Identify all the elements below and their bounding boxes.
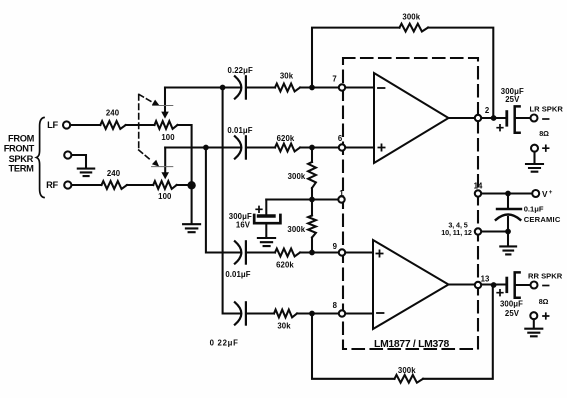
terminal RR SPKR (531, 282, 538, 289)
resistor 240 (RF) (102, 181, 127, 189)
plus sign RR terminal (543, 313, 549, 319)
wire C7 to RR terminal (516, 284, 530, 286)
wire pot1 wiper row to C1 (165, 86, 240, 88)
svg-text:LM1877 / LM378: LM1877 / LM378 (374, 339, 449, 350)
wire U1b output to pin 13 (449, 283, 506, 285)
wire C1 to R3 (246, 86, 275, 88)
minus sign LR SPKR (543, 118, 549, 120)
pin 1 (338, 196, 344, 202)
pin 9 (339, 249, 345, 255)
svg-text:240: 240 (106, 109, 120, 118)
minus sign RR SPKR (543, 285, 549, 287)
svg-text:300k: 300k (402, 13, 420, 22)
wire pot2 right end (177, 184, 192, 186)
terminal RR + (530, 312, 537, 328)
node row6 (309, 145, 315, 151)
node row9 (309, 250, 315, 256)
wire pin6 to op-amp (345, 146, 374, 148)
terminal LF (63, 121, 70, 128)
terminal LR + (531, 145, 538, 164)
resistor 300k (bottom feedback) (395, 375, 424, 383)
capacitor C1 0.22uF (235, 76, 246, 98)
svg-text:FRONT: FRONT (4, 143, 35, 153)
node B (RF signal split) (203, 145, 209, 151)
wire C3 to R5 (246, 251, 275, 253)
node output RR (491, 282, 497, 288)
svg-text:7: 7 (332, 75, 336, 84)
plus sign C7 (497, 290, 503, 296)
svg-text:100: 100 (158, 192, 172, 201)
wire top feedback left leg (312, 28, 400, 88)
svg-text:6: 6 (338, 134, 343, 143)
wire bottom feedback right leg (423, 285, 493, 379)
gang link dashed line (139, 95, 173, 167)
wire node to ground (191, 185, 193, 223)
svg-text:300k: 300k (398, 366, 416, 375)
svg-text:0.01μF: 0.01μF (225, 270, 250, 279)
plus sign C6 (497, 125, 503, 131)
svg-text:0.01μF: 0.01μF (227, 126, 252, 135)
wire C2 to R4 (246, 146, 275, 148)
resistor 30k (bottom) (274, 310, 297, 318)
wire pot1 right end down to ground node (178, 125, 192, 181)
IC dashed package outline (343, 58, 478, 349)
svg-text:620k: 620k (277, 134, 295, 143)
wire center terminal to ground (72, 155, 86, 168)
svg-text:SPKR: SPKR (9, 154, 34, 164)
node A (LF signal split) (220, 85, 226, 91)
resistor 620k (upper) (275, 144, 300, 152)
pin 2 (475, 115, 481, 121)
pin 6 (339, 144, 345, 150)
wire C4 to R6 (246, 312, 274, 314)
resistor 30k (top) (275, 84, 300, 92)
terminal RF (64, 181, 71, 188)
wire C6 to LR terminal (516, 117, 530, 119)
op-amp U1b (373, 240, 449, 329)
svg-text:100: 100 (161, 133, 175, 142)
svg-text:30k: 30k (280, 71, 294, 80)
capacitor C8 0.1uF ceramic (496, 194, 521, 232)
wire R5 to pin 9 (300, 251, 342, 253)
pin 14 (475, 190, 481, 196)
node bypass ground (505, 229, 511, 235)
terminal LR SPKR (531, 115, 538, 122)
node output LR (491, 115, 497, 121)
svg-text:300μF: 300μF (500, 299, 523, 308)
wire top feedback right leg (428, 28, 493, 118)
node V+ / bypass (505, 191, 511, 197)
wire node B down to row 9 (206, 148, 240, 253)
potentiometer 100 (LF) (155, 88, 178, 129)
svg-text:240: 240 (107, 169, 121, 178)
resistor 300k (upper bias) (308, 148, 316, 200)
svg-text:TERM: TERM (9, 164, 35, 174)
svg-text:300k: 300k (288, 172, 306, 181)
wire LF to R1 (70, 124, 100, 126)
svg-text:8: 8 (333, 301, 338, 310)
brace for front speaker terminals (36, 118, 44, 198)
terminal V+ (532, 190, 539, 197)
node pin1 row (309, 197, 315, 203)
capacitor C3 0.01uF (235, 241, 246, 263)
svg-text:8Ω: 8Ω (539, 129, 549, 138)
pin 13 (475, 282, 481, 288)
svg-text:9: 9 (333, 242, 338, 251)
node pot junction (187, 181, 195, 189)
svg-text:13: 13 (481, 275, 490, 284)
svg-text:10, 11, 12: 10, 11, 12 (441, 228, 472, 237)
svg-text:0.1μF: 0.1μF (524, 204, 544, 213)
wire R2 to pot2 (127, 184, 153, 186)
wire R6 to pin 8 (297, 312, 342, 314)
wire RF to R2 (72, 184, 102, 186)
svg-text:1: 1 (339, 189, 344, 198)
wire bottom feedback left leg (312, 314, 395, 379)
node row7 / top feedback (309, 85, 315, 91)
svg-text:RF: RF (46, 180, 58, 190)
wire R3 to pin 7 (300, 86, 342, 88)
capacitor C7 300uF 25V (507, 272, 520, 297)
pin 7 (339, 84, 345, 90)
plus sign LR terminal (543, 145, 549, 151)
svg-text:RR SPKR: RR SPKR (528, 271, 563, 280)
op-amp U1a (374, 73, 449, 163)
svg-text:8Ω: 8Ω (539, 297, 549, 306)
svg-text:FROM: FROM (8, 134, 35, 144)
wire pin8 to op-amp (345, 312, 373, 314)
capacitor C4 0.22uF (235, 302, 246, 324)
svg-text:30k: 30k (277, 321, 291, 330)
svg-text:0 22μF: 0 22μF (210, 338, 239, 347)
wire R4 to pin 6 (300, 146, 342, 148)
svg-text:25V: 25V (505, 309, 520, 318)
ground (LR) (526, 164, 543, 172)
svg-text:0.22μF: 0.22μF (228, 66, 253, 75)
svg-text:620k: 620k (276, 261, 294, 270)
ground (pots) (183, 224, 200, 232)
capacitor C5 300uF 16V (254, 200, 280, 238)
pin 3,4,5,10,11,12 (475, 228, 481, 234)
label V+ (542, 189, 553, 199)
svg-text:25V: 25V (505, 95, 520, 104)
svg-text:LF: LF (47, 120, 58, 130)
plus sign C5 (256, 207, 262, 213)
wire U1a output to pin 2 (449, 117, 506, 119)
terminal center (ground) (64, 151, 71, 158)
capacitor C2 0.01uF (235, 136, 246, 158)
wire pin 3,4,5 row (478, 230, 508, 232)
resistor 300k (top feedback) (400, 24, 429, 32)
svg-text:LR SPKR: LR SPKR (530, 104, 564, 113)
svg-text:300k: 300k (287, 225, 305, 234)
resistor 620k (lower) (275, 249, 300, 257)
ground (center terminal) (78, 169, 94, 177)
label FROM FRONT SPKR TERM (4, 134, 35, 174)
svg-text:2: 2 (485, 106, 490, 115)
resistor 300k (lower bias) (308, 200, 316, 253)
label 300uF 25V (C6) (501, 87, 524, 104)
capacitor C6 300uF 25V (507, 106, 520, 132)
resistor 240 (LF) (100, 121, 125, 129)
wire pot2 wiper row to C2 (165, 146, 240, 148)
svg-text:16V: 16V (236, 220, 251, 229)
label 300uF 25V (C7) (500, 299, 523, 317)
wire R1 to pot1 (126, 124, 155, 126)
svg-text:V: V (542, 190, 548, 199)
wire pin1 row (266, 198, 341, 200)
svg-text:+: + (549, 189, 553, 196)
potentiometer 100 (RF) (153, 148, 177, 189)
wire pin9 to op-amp (345, 251, 373, 253)
svg-text:14: 14 (474, 182, 483, 191)
svg-text:CERAMIC: CERAMIC (524, 215, 561, 224)
ground (C5) (258, 238, 275, 246)
ground (bypass) (507, 232, 509, 246)
wire pin7 to op-amp (345, 86, 374, 88)
wire pin14 to V+ (478, 192, 532, 194)
pin 8 (339, 310, 345, 316)
ground (RR) (525, 329, 542, 337)
wire node A down to row 8 (223, 88, 241, 314)
node row8 / bottom feedback (309, 311, 315, 317)
